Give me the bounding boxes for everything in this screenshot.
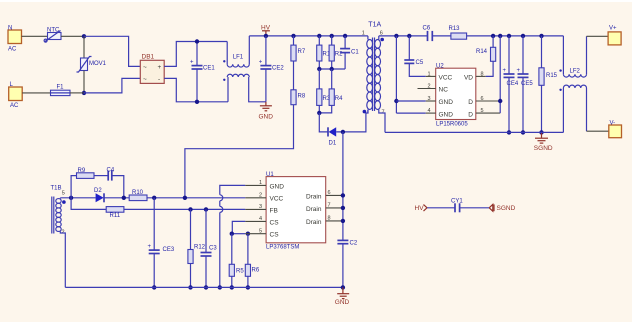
wire CY1 to SGND port <box>460 207 489 209</box>
svg-text:8: 8 <box>328 216 331 222</box>
svg-text:R13: R13 <box>449 26 461 32</box>
resistor R2 <box>329 34 343 69</box>
svg-text:HV: HV <box>261 25 271 32</box>
svg-text:F1: F1 <box>57 85 65 91</box>
svg-text:6: 6 <box>481 96 484 102</box>
wire GND pin column with hops <box>218 185 246 289</box>
wire C6 to R13 <box>433 35 451 37</box>
resistor R6 <box>245 232 260 290</box>
CS line <box>232 233 246 235</box>
svg-text:5: 5 <box>259 228 262 234</box>
terminal L <box>9 82 23 109</box>
svg-text:5: 5 <box>62 191 65 197</box>
secondary rail after R13 <box>467 35 564 37</box>
fuse F1 <box>51 85 71 96</box>
svg-text:8: 8 <box>481 72 484 78</box>
svg-text:6: 6 <box>328 190 331 196</box>
svg-text:SGND: SGND <box>497 205 516 212</box>
junction drain top <box>341 130 345 134</box>
resistor R7 <box>291 34 306 61</box>
svg-text:R6: R6 <box>252 268 260 274</box>
svg-text:C2: C2 <box>350 241 358 247</box>
svg-text:C1: C1 <box>351 50 359 56</box>
junction R1 bottom <box>317 67 321 71</box>
resistor R12 <box>188 207 206 289</box>
svg-text:Drain: Drain <box>306 219 322 226</box>
svg-text:1: 1 <box>259 180 262 186</box>
resistor R11 <box>106 207 124 219</box>
capacitor C2 <box>337 240 357 287</box>
svg-text:+: + <box>190 60 194 66</box>
capacitor CE3 <box>148 198 175 290</box>
svg-text:D1: D1 <box>329 140 337 146</box>
wire CS pin4 jog <box>232 221 245 233</box>
wire HV port to CY1 <box>427 207 455 209</box>
wire node to D1 <box>319 113 327 132</box>
terminal N <box>8 26 22 53</box>
capacitor C1 <box>340 34 359 69</box>
wire R1 R2 C1 bottoms <box>319 68 345 70</box>
svg-text:T1B: T1B <box>51 186 62 192</box>
varistor MOV1 <box>77 57 107 73</box>
svg-text:1: 1 <box>428 72 431 78</box>
svg-text:2: 2 <box>428 84 431 90</box>
resistor R14 <box>476 34 496 77</box>
svg-text:1: 1 <box>362 31 365 37</box>
transformer T1A <box>362 22 385 133</box>
svg-text:+: + <box>503 68 507 74</box>
resistor R8 <box>291 90 306 105</box>
ground GND bottom <box>335 285 350 306</box>
node aux2 <box>122 196 126 200</box>
svg-text:GND: GND <box>335 299 350 306</box>
node B junction <box>82 91 86 95</box>
svg-text:R11: R11 <box>110 213 121 219</box>
terminal Vminus <box>609 121 622 138</box>
svg-text:VD: VD <box>464 75 473 82</box>
svg-text:R5: R5 <box>236 269 244 275</box>
svg-text:GND: GND <box>439 111 454 118</box>
wire L to F1 <box>22 92 50 94</box>
svg-text:Drain: Drain <box>306 206 322 213</box>
capacitor C6 <box>423 26 433 42</box>
capacitor CE2 <box>259 34 285 102</box>
svg-text:U2: U2 <box>436 64 444 70</box>
capacitor C4 <box>107 168 115 181</box>
wire LF2 to Vplus <box>587 35 609 37</box>
wire D2 to R10 <box>104 197 129 199</box>
svg-text:U1: U1 <box>266 172 274 178</box>
top rail HV <box>249 35 368 37</box>
node R8 join <box>183 196 187 200</box>
svg-text:5: 5 <box>481 108 484 114</box>
svg-text:+: + <box>148 244 152 250</box>
svg-text:C4: C4 <box>107 168 115 174</box>
svg-text:Drain: Drain <box>306 193 322 200</box>
wire node A to DB1 top <box>84 36 140 66</box>
svg-text:CE1: CE1 <box>203 66 215 72</box>
capacitor CE1 <box>190 39 215 104</box>
junction R2 bottom <box>330 67 334 71</box>
svg-text:C6: C6 <box>423 26 431 32</box>
wire LF2 to Vminus <box>587 130 609 132</box>
svg-text:NC: NC <box>439 87 449 94</box>
wire R10 to VCC line <box>147 197 245 199</box>
svg-text:CE3: CE3 <box>163 247 175 253</box>
capacitor CY1 <box>451 198 463 212</box>
wire DB1 plus to top rail <box>164 42 227 67</box>
svg-text:R7: R7 <box>298 49 306 55</box>
svg-text:R12: R12 <box>194 245 206 251</box>
resistor R3 <box>317 69 331 113</box>
svg-text:CE4: CE4 <box>507 81 519 87</box>
svg-text:7: 7 <box>328 203 331 209</box>
svg-text:R10: R10 <box>132 190 144 196</box>
terminal Vplus <box>608 26 621 45</box>
port HV cy <box>415 205 428 213</box>
svg-text:CY1: CY1 <box>451 198 463 204</box>
port SGND cy <box>489 204 515 212</box>
svg-text:CS: CS <box>270 219 280 226</box>
svg-text:R9: R9 <box>78 168 86 174</box>
resistor R4 <box>319 69 343 113</box>
capacitor C5 <box>404 34 425 77</box>
svg-text:C5: C5 <box>416 60 424 66</box>
diode D2 <box>94 188 104 202</box>
resistor R10 <box>129 190 147 201</box>
IC U1 <box>245 172 343 251</box>
resistor R5 <box>229 232 244 290</box>
svg-text:D: D <box>468 99 473 106</box>
svg-text:GND: GND <box>270 183 285 190</box>
bottom rail <box>65 286 343 288</box>
svg-text:~: ~ <box>143 76 147 83</box>
svg-text:V-: V- <box>610 121 616 127</box>
svg-text:~: ~ <box>143 64 147 71</box>
wire D1 to drain node <box>336 110 368 132</box>
svg-text:+: + <box>517 68 521 74</box>
svg-text:R14: R14 <box>476 49 488 55</box>
svg-text:4: 4 <box>259 216 262 222</box>
svg-text:D2: D2 <box>94 188 102 194</box>
wire NTC to node A <box>61 35 84 37</box>
svg-text:C3: C3 <box>209 246 217 252</box>
svg-text:FB: FB <box>270 207 278 214</box>
svg-text:GND: GND <box>259 114 274 121</box>
svg-text:MOV1: MOV1 <box>89 61 107 67</box>
transformer T1B <box>51 186 66 288</box>
node aux1 <box>69 196 73 200</box>
wire F1 to node B <box>70 92 84 94</box>
svg-text:V+: V+ <box>609 26 617 32</box>
bridge rectifier DB1 <box>140 54 164 84</box>
wire up to R9 <box>71 176 76 198</box>
wire U2 drain column <box>498 34 502 113</box>
svg-text:3: 3 <box>259 204 262 210</box>
wire N to NTC <box>22 35 48 37</box>
node A junction <box>82 34 86 38</box>
wire DB1 minus to bottom rail <box>164 78 228 101</box>
common-mode choke LF1 <box>223 36 266 102</box>
node R3 R4 <box>317 111 321 115</box>
node CE3 top <box>152 196 156 200</box>
power port HV <box>261 25 271 36</box>
common-mode choke LF2 <box>559 36 586 132</box>
wire R11 branch <box>71 198 106 210</box>
resistor R9 <box>77 168 95 178</box>
svg-text:R4: R4 <box>335 96 343 102</box>
diode D1 <box>328 127 337 146</box>
svg-text:N: N <box>8 26 12 32</box>
wire node B to DB1 bottom <box>84 78 140 93</box>
svg-text:VCC: VCC <box>439 75 453 82</box>
svg-text:+: + <box>158 64 162 71</box>
drain bus <box>341 132 345 240</box>
thermistor NTC <box>44 28 61 43</box>
resistor R1 <box>317 34 331 69</box>
svg-text:AC: AC <box>8 47 17 53</box>
svg-text:R8: R8 <box>298 94 306 100</box>
svg-text:R15: R15 <box>546 73 558 79</box>
svg-text:CE2: CE2 <box>272 66 284 72</box>
secondary bottom rail <box>385 131 563 133</box>
wire R9 to C4 <box>94 175 108 177</box>
svg-text:HV: HV <box>415 205 425 212</box>
wire R8 down to VCC line <box>185 105 294 198</box>
svg-text:T1A: T1A <box>368 22 381 29</box>
svg-text:GND: GND <box>439 99 454 106</box>
svg-text:LF2: LF2 <box>570 69 581 75</box>
svg-text:NTC: NTC <box>47 28 60 34</box>
svg-text:2: 2 <box>259 192 262 198</box>
wire C4 to node aux2 <box>112 176 124 198</box>
svg-text:DB1: DB1 <box>142 54 155 61</box>
ground GND primary <box>259 102 274 121</box>
svg-text:AC: AC <box>10 103 19 109</box>
svg-text:SGND: SGND <box>534 145 553 152</box>
svg-text:LP3768TSM: LP3768TSM <box>266 245 299 251</box>
capacitor CE5 <box>517 34 534 135</box>
capacitor C3 <box>201 207 218 289</box>
wire MOV1 to node B <box>83 71 85 93</box>
wire R7 to R8 <box>293 61 295 90</box>
svg-text:3: 3 <box>428 96 431 102</box>
IC U2 <box>418 64 501 128</box>
svg-text:LP15R0605: LP15R0605 <box>436 122 468 128</box>
FB line <box>124 208 245 210</box>
ground SGND <box>534 132 553 152</box>
capacitor CE4 <box>503 34 519 135</box>
svg-text:4: 4 <box>428 108 431 114</box>
resistor R15 <box>539 34 558 135</box>
svg-text:D: D <box>468 111 473 118</box>
svg-text:VCC: VCC <box>270 196 284 203</box>
svg-text:+: + <box>259 60 263 66</box>
svg-text:LF1: LF1 <box>233 55 244 61</box>
resistor R13 <box>449 26 467 39</box>
wire node A down to MOV1 <box>83 36 85 58</box>
main aux line <box>60 197 95 199</box>
svg-text:-: - <box>158 76 160 83</box>
svg-text:CS: CS <box>270 232 280 239</box>
wire sec gnd column <box>394 34 426 113</box>
secondary top rail <box>379 35 428 37</box>
